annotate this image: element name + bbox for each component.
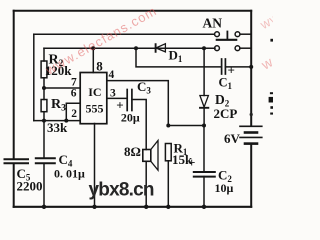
wire D2 branch lower [203, 108, 205, 126]
svg-text:10μ: 10μ [215, 181, 234, 195]
capacitor C2 [194, 126, 215, 207]
svg-text:8: 8 [96, 59, 103, 74]
wire outer left rail upper [13, 11, 15, 159]
pushbutton AN actuator [217, 32, 236, 40]
svg-text:8Ω: 8Ω [124, 144, 141, 159]
wire outer top rail [14, 10, 252, 12]
svg-text:+: + [228, 63, 235, 78]
svg-text:6: 6 [71, 88, 77, 100]
svg-text:555: 555 [86, 102, 104, 116]
wire C1 branch [136, 48, 221, 67]
wire outer left rail lower [13, 164, 15, 207]
wire switch row2 right stub [240, 47, 251, 49]
wire C1 to right rail [225, 66, 251, 68]
wire pin2 / 33k node line [34, 120, 80, 122]
svg-text:+: + [188, 155, 195, 170]
wire pin3 line [107, 97, 127, 99]
wire junction row y125 [168, 125, 204, 127]
capacitor C4 [36, 121, 55, 207]
battery BT 6V plates [240, 126, 262, 143]
svg-text:2: 2 [71, 108, 77, 120]
svg-text:6V: 6V [224, 131, 241, 146]
speaker LS 8ohm [143, 141, 158, 207]
pushbutton AN contacts [215, 32, 240, 51]
wire pin7 line [44, 87, 80, 89]
svg-text:4: 4 [109, 69, 115, 81]
capacitor C3 plates [127, 90, 132, 111]
right edge text fragment 2 [269, 92, 273, 109]
svg-text:AN: AN [203, 16, 223, 31]
wire pin1 ground drop [94, 124, 96, 207]
resistor R3 [41, 100, 47, 121]
svg-text:0. 01μ: 0. 01μ [54, 167, 85, 181]
wire top rail right stub to right rail [240, 33, 251, 35]
wire inner left rail [33, 34, 35, 120]
svg-text:2CP: 2CP [214, 106, 238, 121]
wire pin4 line [107, 81, 169, 126]
capacitor C1 plates [222, 59, 226, 74]
svg-text:2200: 2200 [17, 178, 43, 193]
right edge text fragment 3 [270, 113, 273, 115]
scan blob on right rail [250, 113, 253, 116]
resistor R1 [165, 144, 171, 207]
wire D2 branch upper [203, 48, 205, 95]
svg-text:3: 3 [110, 88, 116, 100]
op-amp U1 555 IC box [80, 73, 107, 124]
svg-text:ybx8.cn: ybx8.cn [89, 180, 154, 201]
svg-text:33k: 33k [47, 120, 68, 135]
resistor R2 [41, 48, 47, 99]
wire bottom ground rail [14, 206, 252, 208]
wire outer right rail lower [250, 144, 252, 207]
svg-text:20μ: 20μ [121, 110, 140, 124]
wire C3 to speaker [132, 100, 146, 150]
diode D1 [156, 44, 166, 52]
wire D1 net line [44, 47, 215, 49]
wire pin8 drop [92, 48, 94, 72]
wire pin6 line [66, 103, 80, 120]
right edge text fragment 1 [270, 39, 273, 42]
svg-text:IC: IC [88, 85, 101, 99]
wire outer right rail upper [250, 11, 252, 126]
diode D2 [200, 96, 209, 108]
capacitor C5 plates [5, 159, 29, 163]
wire inner top rail [34, 33, 215, 35]
